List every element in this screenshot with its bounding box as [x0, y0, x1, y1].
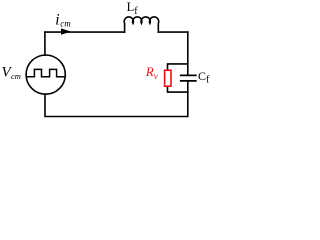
svg-text:icm: icm — [55, 12, 71, 29]
svg-text:Cf: Cf — [198, 69, 210, 86]
wire source top stub — [44, 32, 46, 55]
wire branch top (to Rv) — [168, 64, 188, 70]
wire source bottom stub / bottom rail / right riser — [45, 82, 188, 117]
svg-text:Vcm: Vcm — [2, 65, 21, 81]
wire top left segment — [45, 31, 125, 33]
inductor L_f — [124, 17, 158, 32]
square-wave symbol inside source — [28, 69, 64, 76]
svg-text:Lf: Lf — [127, 0, 139, 17]
wire top right segment — [158, 31, 188, 33]
svg-text:Rv: Rv — [145, 64, 158, 81]
current arrow i_cm — [61, 28, 71, 34]
wire right vertical upper — [187, 32, 189, 75]
capacitor C_f plates — [181, 75, 196, 81]
voltage source V_cm circle — [26, 55, 65, 94]
wire branch bottom (from Rv) — [168, 87, 188, 92]
resistor R_v (red box) — [165, 70, 171, 86]
